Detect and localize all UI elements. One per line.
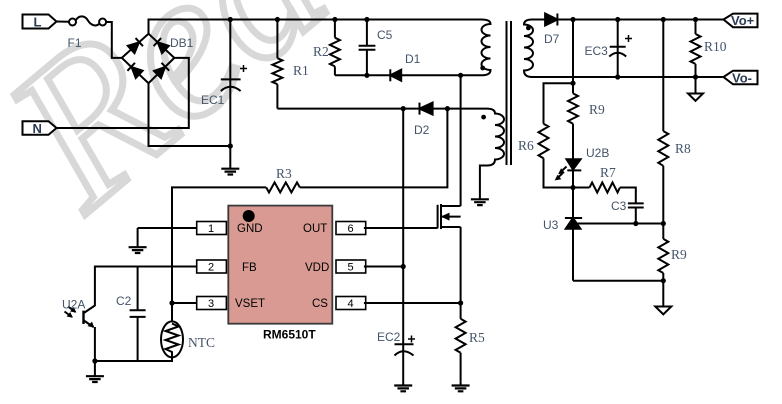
resistor R3 xyxy=(266,166,300,192)
diode D7 xyxy=(544,14,560,47)
svg-text:C5: C5 xyxy=(377,28,393,42)
svg-text:U2A: U2A xyxy=(62,298,85,312)
wire VSET pin3 xyxy=(172,302,197,304)
wire pin1 to ground xyxy=(138,227,197,229)
bridge DB1 diamond xyxy=(122,34,194,83)
svg-text:R8: R8 xyxy=(675,141,691,156)
ground (R5) xyxy=(460,381,462,385)
ground arrow (Vo-) xyxy=(688,77,703,101)
svg-text:R7: R7 xyxy=(600,165,616,180)
transformer T1 aux winding xyxy=(480,109,504,198)
capacitor C2 xyxy=(116,267,146,362)
svg-text:R5: R5 xyxy=(469,330,485,345)
phase dot aux xyxy=(481,115,486,120)
svg-text:RM6510T: RM6510T xyxy=(263,328,316,342)
optocoupler U2B led xyxy=(556,146,610,188)
terminal L xyxy=(23,15,57,30)
ground arrow (reg) xyxy=(655,281,671,315)
phase dot secondary xyxy=(526,26,531,31)
bridge diode top-left xyxy=(127,38,143,54)
svg-text:6: 6 xyxy=(348,223,354,235)
transformer T1 primary xyxy=(482,20,491,76)
optocoupler U2A xyxy=(62,298,95,362)
wire R1 bottom to D2 xyxy=(277,108,419,110)
svg-text:R2: R2 xyxy=(313,44,329,59)
svg-text:F1: F1 xyxy=(68,36,82,50)
svg-text:N: N xyxy=(33,121,42,136)
svg-text:CS: CS xyxy=(312,298,328,310)
wire C5 bottom to D1 xyxy=(367,74,390,76)
pin 6 box xyxy=(336,222,366,236)
svg-text:EC1: EC1 xyxy=(201,93,225,107)
IC U1 RM6510T xyxy=(228,206,332,342)
svg-text:GND: GND xyxy=(237,223,263,235)
phase dot primary xyxy=(480,66,485,71)
bridge diode top-right xyxy=(154,38,170,54)
capacitor C5 xyxy=(359,20,393,76)
terminal Vo+ xyxy=(724,13,758,28)
svg-text:5: 5 xyxy=(348,262,354,274)
svg-text:NTC: NTC xyxy=(188,335,215,350)
resistor R1 xyxy=(272,20,308,109)
svg-text:Vo-: Vo- xyxy=(732,71,752,86)
wire R6 branch xyxy=(544,83,574,124)
wire bridge minus to EC1 bottom xyxy=(149,83,231,146)
wire aux node to R3 xyxy=(300,109,448,188)
svg-text:VSET: VSET xyxy=(235,298,265,310)
resistor R2 xyxy=(313,20,340,76)
pin 2 box xyxy=(197,260,227,274)
diode D2 xyxy=(414,103,433,137)
resistor R5 xyxy=(456,303,485,381)
svg-text:FB: FB xyxy=(242,262,257,274)
svg-text:D2: D2 xyxy=(414,123,430,137)
resistor R8 xyxy=(658,20,691,224)
svg-text:EC2: EC2 xyxy=(377,330,401,344)
diode D1 xyxy=(390,52,420,81)
resistor R6 xyxy=(518,124,573,188)
regulator U3 xyxy=(543,188,582,281)
resistor R10 xyxy=(691,20,727,78)
terminal N xyxy=(23,121,57,136)
pin 5 box xyxy=(336,260,366,274)
wire R9 feed from Vo+ xyxy=(572,20,574,94)
wire pin6 OUT to gate xyxy=(364,227,438,229)
transformer T1 secondary xyxy=(524,20,533,78)
wire pin5 VDD xyxy=(364,266,403,268)
svg-text:R1: R1 xyxy=(293,63,309,78)
svg-text:DB1: DB1 xyxy=(170,36,194,50)
terminal Vo- xyxy=(724,71,758,86)
svg-text:D1: D1 xyxy=(405,52,421,66)
wire D2 anode to aux winding xyxy=(433,108,487,110)
transistor Q1 mosfet xyxy=(438,204,461,229)
svg-text:L: L xyxy=(34,15,42,30)
svg-text:R6: R6 xyxy=(518,138,534,153)
wire U3 anode to gnd node xyxy=(573,280,663,282)
wire VDD net vertical xyxy=(402,109,404,345)
wire drain to primary node xyxy=(460,75,462,206)
svg-text:D7: D7 xyxy=(544,32,560,46)
svg-text:R9: R9 xyxy=(589,102,605,117)
svg-text:C3: C3 xyxy=(611,199,627,213)
svg-text:C2: C2 xyxy=(116,294,132,308)
wire pin4 CS xyxy=(364,302,461,304)
wire U3 ref line xyxy=(573,223,663,225)
bridge diode bottom-left xyxy=(127,63,143,79)
wire NTC bottom to gnd rail xyxy=(95,357,172,361)
pin 3 box xyxy=(197,297,227,311)
wire Vo+ rail xyxy=(557,19,723,21)
svg-text:3: 3 xyxy=(208,298,214,310)
svg-text:OUT: OUT xyxy=(303,223,327,235)
pin 1 box xyxy=(197,222,227,236)
capacitor EC2 xyxy=(377,330,415,382)
capacitor EC3 xyxy=(585,20,633,78)
wire L to fuse xyxy=(57,21,70,23)
wire pin2 FB net xyxy=(95,267,197,307)
transformer core xyxy=(507,21,512,165)
wire bridge top to HV rail xyxy=(149,20,482,34)
thermistor NTC xyxy=(161,321,215,357)
svg-text:R9: R9 xyxy=(671,247,687,262)
svg-text:2: 2 xyxy=(208,262,214,274)
wire Vo- rail xyxy=(532,76,724,78)
ground (aux winding) xyxy=(479,198,481,200)
resistor R9 upper xyxy=(568,93,605,159)
capacitor C3 xyxy=(611,199,644,224)
svg-text:U2B: U2B xyxy=(586,146,609,160)
wire R2 bottom to C5 bottom xyxy=(335,74,367,76)
svg-text:Vo+: Vo+ xyxy=(731,13,755,28)
wire secondary top to D7 xyxy=(532,19,545,21)
svg-text:R3: R3 xyxy=(276,166,292,181)
pin 4 box xyxy=(336,297,366,311)
wire N to bridge AC2 xyxy=(57,58,189,128)
svg-text:EC3: EC3 xyxy=(585,44,609,58)
ground (EC1) xyxy=(221,146,239,175)
wire source to CS node xyxy=(460,227,462,303)
wire fuse to bridge AC1 xyxy=(106,22,122,58)
svg-text:U3: U3 xyxy=(543,218,559,232)
wire R3 to VSET / NTC xyxy=(172,187,266,321)
fuse F1 xyxy=(68,16,107,50)
resistor R9 lower xyxy=(658,224,687,281)
ground (pin1) xyxy=(137,228,139,247)
svg-text:R10: R10 xyxy=(704,39,727,54)
ground (FB net) xyxy=(86,361,104,382)
capacitor EC1 xyxy=(201,20,247,147)
resistor R7 xyxy=(573,165,636,203)
bridge diode bottom-right xyxy=(154,63,170,79)
ground (EC2) xyxy=(402,382,404,386)
wire D1 to primary node xyxy=(401,74,481,76)
svg-text:VDD: VDD xyxy=(305,262,329,274)
svg-text:4: 4 xyxy=(348,298,354,310)
svg-text:1: 1 xyxy=(208,223,214,235)
